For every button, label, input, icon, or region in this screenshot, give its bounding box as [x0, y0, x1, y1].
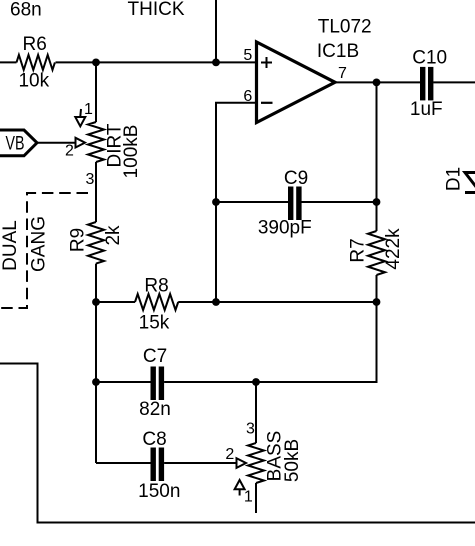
svg-text:1: 1 — [244, 489, 253, 506]
svg-text:10k: 10k — [18, 71, 49, 92]
svg-text:VB: VB — [6, 134, 25, 155]
junction dot BASS branch / C7 — [252, 378, 260, 386]
BASS pin 2 wiper arrow — [237, 458, 247, 468]
svg-text:2: 2 — [65, 143, 74, 160]
wire: C9 right lead — [301, 201, 376, 203]
svg-text:2k: 2k — [103, 225, 124, 246]
wire: op-amp pin 6 feedback to vertical — [216, 103, 256, 302]
wire: op-amp output pin 7 to C10 — [335, 81, 420, 83]
wire: feedback vertical C9 node to R7 — [376, 202, 378, 231]
svg-text:R9: R9 — [68, 228, 89, 252]
svg-text:GANG: GANG — [29, 216, 50, 272]
svg-text:390pF: 390pF — [258, 218, 312, 239]
wire: C8 left lead from vertical — [96, 462, 151, 464]
op-amp minus input marker — [261, 102, 273, 104]
capacitor C7 — [139, 346, 171, 420]
wire: C7 left lead — [96, 381, 151, 383]
svg-text:7: 7 — [338, 65, 347, 82]
svg-text:1: 1 — [84, 101, 93, 118]
potentiometer DIRT 100kB — [65, 101, 142, 188]
svg-text:C8: C8 — [142, 429, 166, 450]
wire: C10 output to right edge — [433, 81, 475, 83]
svg-text:150n: 150n — [138, 481, 180, 502]
diode D1 (partial, clipped at right edge) — [444, 167, 475, 193]
wire: vertical branch from input down to DIRT — [95, 62, 97, 122]
svg-text:R8: R8 — [144, 276, 168, 297]
svg-text:IC1B: IC1B — [317, 41, 359, 62]
junction dot at R6 output / DIRT branch — [92, 59, 100, 67]
capacitor C9 — [258, 168, 312, 239]
wire: R8 node horizontal run — [96, 301, 135, 303]
resistor R9 — [68, 222, 125, 264]
resistor R6 — [17, 34, 55, 92]
svg-text:D1: D1 — [444, 167, 465, 191]
resistor R7 — [348, 228, 405, 275]
junction dot at pin6 vertical / C9 — [212, 198, 220, 206]
junction dot at THICK vertical / pin5 wire — [212, 59, 220, 67]
wire: bottom-left net from left edge down and across bottom — [0, 364, 475, 523]
svg-text:3: 3 — [246, 421, 255, 438]
svg-text:THICK: THICK — [128, 0, 185, 20]
op-amp plus input marker — [261, 57, 272, 68]
wire: feedback vertical from output down to C9 node — [376, 82, 378, 202]
svg-text:82n: 82n — [139, 399, 171, 420]
op-amp U1 IC1B triangle — [257, 42, 336, 123]
junction dot at feedback vertical / C9 — [373, 198, 381, 206]
capacitor C10 — [410, 47, 447, 120]
junction dot R7 bottom / R8 — [373, 298, 381, 306]
svg-text:50kB: 50kB — [282, 439, 303, 482]
svg-text:DUAL: DUAL — [0, 220, 21, 271]
wire: input net from left edge to R6 — [0, 61, 17, 63]
svg-text:100kB: 100kB — [121, 125, 142, 179]
wire: DIRT bottom to R9 — [95, 162, 97, 222]
wire: BASS bottom lead (open end) — [255, 483, 257, 513]
wire: R7 bottom to R8 node — [376, 275, 378, 302]
junction dot pin6 vertical / R8 — [212, 298, 220, 306]
BASS pin 1 arrow — [235, 480, 245, 489]
svg-text:C7: C7 — [143, 346, 167, 367]
dashed dual-gang grouping box — [0, 193, 88, 308]
DIRT pin 2 wiper arrow — [76, 138, 86, 148]
svg-text:C9: C9 — [284, 168, 308, 189]
resistor R8 — [135, 276, 178, 334]
wire: C8 right lead to BASS wiper — [164, 462, 236, 464]
VB net tag — [0, 130, 37, 156]
svg-text:1uF: 1uF — [410, 99, 443, 120]
svg-text:R6: R6 — [23, 34, 47, 55]
junction dot R9 vertical / C7 — [92, 378, 100, 386]
DIRT pin 1 arrow — [79, 109, 82, 117]
svg-text:3: 3 — [86, 171, 95, 188]
wire: R9 bottom to C7 node and down to C8 — [95, 264, 97, 463]
wire: C7 right lead to feedback vertical — [164, 302, 376, 382]
svg-text:422k: 422k — [383, 228, 404, 270]
svg-text:68n: 68n — [10, 0, 42, 21]
svg-text:C10: C10 — [412, 47, 447, 68]
svg-text:TL072: TL072 — [318, 17, 372, 38]
svg-text:2: 2 — [225, 446, 234, 463]
wire: C9 left lead — [216, 201, 288, 203]
wire: vertical from THICK net down to input wire — [215, 0, 217, 62]
capacitor C8 — [138, 429, 180, 502]
potentiometer BASS 50kB — [225, 421, 303, 506]
svg-text:5: 5 — [243, 47, 252, 64]
wire: R8 to feedback vertical — [178, 301, 376, 303]
wire: VB to DIRT wiper — [37, 142, 76, 144]
junction dot R9 bottom / R8 — [92, 298, 100, 306]
wire: R6 output to op-amp pin 5 — [56, 61, 256, 63]
wire: C7 node down to BASS pin 3 — [255, 382, 257, 443]
svg-text:15k: 15k — [139, 313, 170, 334]
junction dot at output / feedback branch — [373, 79, 381, 87]
svg-text:R7: R7 — [348, 238, 369, 262]
